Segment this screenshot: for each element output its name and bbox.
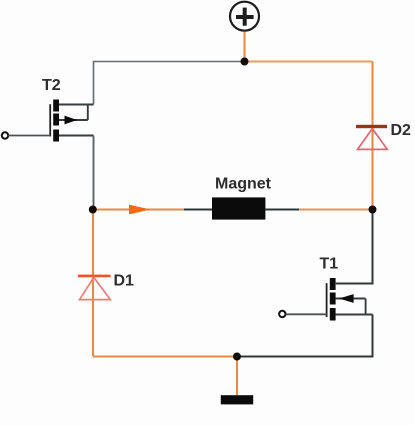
wire: T2 source down to left node (dark) xyxy=(93,136,95,210)
wire: T1 source down to bottom rail (dark) xyxy=(237,315,373,357)
transistor T1 (N-MOSFET) xyxy=(327,278,373,321)
diode D2 xyxy=(356,125,387,150)
power supply + terminal xyxy=(230,2,259,31)
wire: D2 branch vertical (orange) xyxy=(371,62,373,210)
diode D1 xyxy=(78,275,111,300)
svg-text:T1: T1 xyxy=(320,256,339,273)
svg-text:Magnet: Magnet xyxy=(215,176,272,193)
node: bottom rail junction xyxy=(233,353,241,361)
wire: junction down to T1 drain (dark) xyxy=(336,210,373,284)
wire: top rail right (orange) xyxy=(245,61,373,63)
wire: T1 gate lead (gray) xyxy=(286,313,327,315)
node: left middle junction xyxy=(89,206,97,214)
wire: bottom rail left (orange) xyxy=(93,355,237,357)
wire: top rail left (gray) xyxy=(94,62,245,105)
wire: supply down to top rail (orange) xyxy=(243,32,245,62)
svg-text:D1: D1 xyxy=(114,273,135,290)
node: top rail junction xyxy=(241,58,249,66)
wire: node to magnet left (orange) xyxy=(93,208,184,210)
terminal: T1 gate input xyxy=(279,311,285,317)
magnet coil (load) xyxy=(212,197,265,219)
wire: ground stub (orange) xyxy=(236,357,238,396)
current direction arrow (orange) xyxy=(129,205,151,215)
wire: magnet left lead (dark) xyxy=(184,209,212,211)
transistor T2 (P-MOSFET) xyxy=(50,100,93,142)
ground xyxy=(221,395,253,404)
wire: magnet to right junction (orange) xyxy=(299,209,373,211)
node: right middle junction xyxy=(369,206,377,214)
svg-text:T2: T2 xyxy=(42,77,61,94)
wire: D1 branch vertical (orange) xyxy=(92,210,94,357)
wire: magnet right lead (dark) xyxy=(265,209,299,211)
terminal: T2 gate input xyxy=(2,132,8,138)
svg-text:D2: D2 xyxy=(391,122,412,139)
wire: T2 gate lead (gray) xyxy=(8,135,50,137)
